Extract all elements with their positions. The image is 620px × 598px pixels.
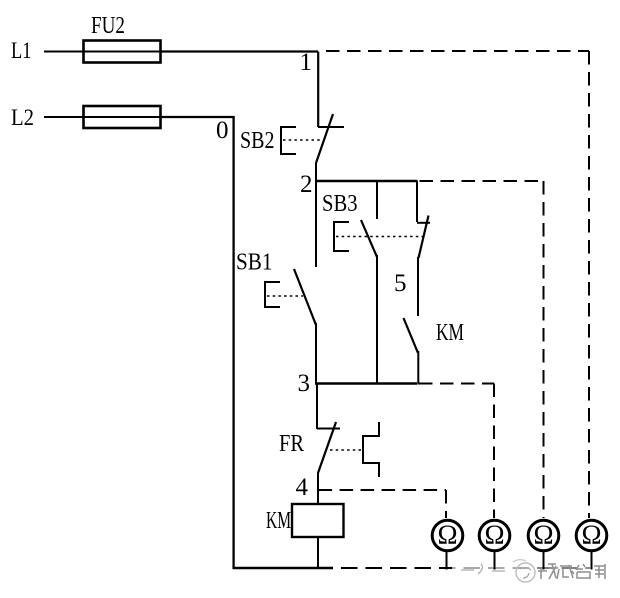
dashed test lead node4 vertical <box>445 490 447 518</box>
dashed test lead node1 horizontal <box>326 50 589 52</box>
contact KM lever <box>404 318 419 353</box>
meter 3 circle <box>528 520 559 551</box>
pushbutton SB2 lever <box>316 114 333 163</box>
svg-text:2: 2 <box>300 171 313 198</box>
svg-text:FR: FR <box>279 431 304 457</box>
watermark text <box>538 564 605 579</box>
dashed test lead node3 horizontal <box>419 383 494 385</box>
wire node 0 left vertical <box>232 117 234 569</box>
wire L2 to node 0 <box>161 116 235 118</box>
wire bottom return <box>233 567 334 569</box>
relay FR contact bar <box>317 428 340 430</box>
dashed test lead node2 vertical <box>543 181 545 518</box>
wire node 5 <box>417 257 419 316</box>
wire node 1 vertical <box>317 52 319 128</box>
svg-text:L2: L2 <box>11 105 34 130</box>
meter 2 circle <box>479 520 510 551</box>
relay FR lower wire <box>317 472 319 504</box>
svg-text:Ω: Ω <box>437 520 457 550</box>
svg-text:SB2: SB2 <box>240 128 275 154</box>
wire SB3 NO branch lower <box>376 255 378 385</box>
wire node 2 bus <box>315 180 418 183</box>
wire fuse FU2 through-line <box>84 51 161 53</box>
wire SB1 branch lower <box>315 323 317 385</box>
dashed test lead node1 vertical <box>588 51 590 518</box>
pushbutton SB3 NC lever <box>419 216 429 259</box>
meter 1 tail <box>446 551 448 570</box>
svg-text:L1: L1 <box>11 38 32 63</box>
pushbutton SB1 linkage dotted <box>267 295 303 297</box>
wire L1 to fuse <box>44 51 84 53</box>
svg-text:KM: KM <box>436 320 464 346</box>
pushbutton SB3 actuator bracket <box>334 222 349 251</box>
meter 4 tail repaint <box>591 551 593 570</box>
fuse FU1 body <box>84 106 161 128</box>
fuse FU2 body <box>84 41 161 63</box>
wire L2 to fuse <box>44 116 84 118</box>
relay FR linkage dotted <box>330 449 363 451</box>
wire SB3 NC branch upper <box>416 181 418 222</box>
pushbutton SB3 NC contact bar <box>417 222 430 224</box>
svg-text:KM: KM <box>266 508 291 534</box>
coil KM body <box>292 504 344 537</box>
dashed test lead node2 horizontal <box>420 180 544 182</box>
svg-text:SB3: SB3 <box>322 191 358 217</box>
watermark fade over dashed line <box>452 558 537 580</box>
dashed test lead node4 horizontal <box>319 489 446 491</box>
pushbutton SB1 lever <box>294 269 316 325</box>
dashed test lead node3 vertical <box>493 384 495 519</box>
wire SB3 NO branch upper <box>376 181 378 219</box>
wire L1 to node 1 <box>161 50 319 52</box>
wire coil to bottom <box>317 537 319 568</box>
svg-text:FU2: FU2 <box>91 13 125 39</box>
pushbutton SB2 linkage dotted <box>283 139 320 141</box>
meter 4 tail <box>591 551 593 570</box>
meter 2 tail <box>494 551 496 570</box>
wire fuse FU1 through-line <box>84 116 161 118</box>
meter 1 circle <box>432 520 463 551</box>
pushbutton SB2 lower wire <box>315 163 317 182</box>
pushbutton SB1 actuator bracket <box>265 282 280 307</box>
svg-text:0: 0 <box>216 117 229 144</box>
pushbutton SB3 linkage dotted <box>336 236 424 238</box>
svg-text:Ω: Ω <box>484 520 504 550</box>
relay FR upper wire <box>316 384 318 430</box>
wire SB1 branch upper <box>315 181 317 267</box>
pushbutton SB2 contact bar <box>318 126 344 128</box>
wire KM contact lower <box>417 351 419 385</box>
svg-text:Ω: Ω <box>533 520 553 550</box>
svg-text:SB1: SB1 <box>236 250 273 276</box>
svg-text:Ω: Ω <box>581 520 601 550</box>
pushbutton SB2 actuator bracket <box>281 127 296 154</box>
svg-text:5: 5 <box>394 270 407 297</box>
meter 2 tail repaint <box>494 551 496 570</box>
svg-text:4: 4 <box>296 474 309 501</box>
pushbutton SB3 NO lever <box>361 220 377 257</box>
relay FR heater element <box>363 422 379 477</box>
dashed bottom return <box>341 567 592 569</box>
meter 4 circle <box>576 520 607 551</box>
meter 3 tail repaint <box>543 551 545 570</box>
svg-text:3: 3 <box>298 370 311 397</box>
meter 3 tail <box>543 551 545 570</box>
wire node 3 bus <box>315 382 417 385</box>
relay FR lever <box>318 422 336 473</box>
watermark logo swirl <box>461 560 535 582</box>
svg-text:1: 1 <box>300 49 313 76</box>
